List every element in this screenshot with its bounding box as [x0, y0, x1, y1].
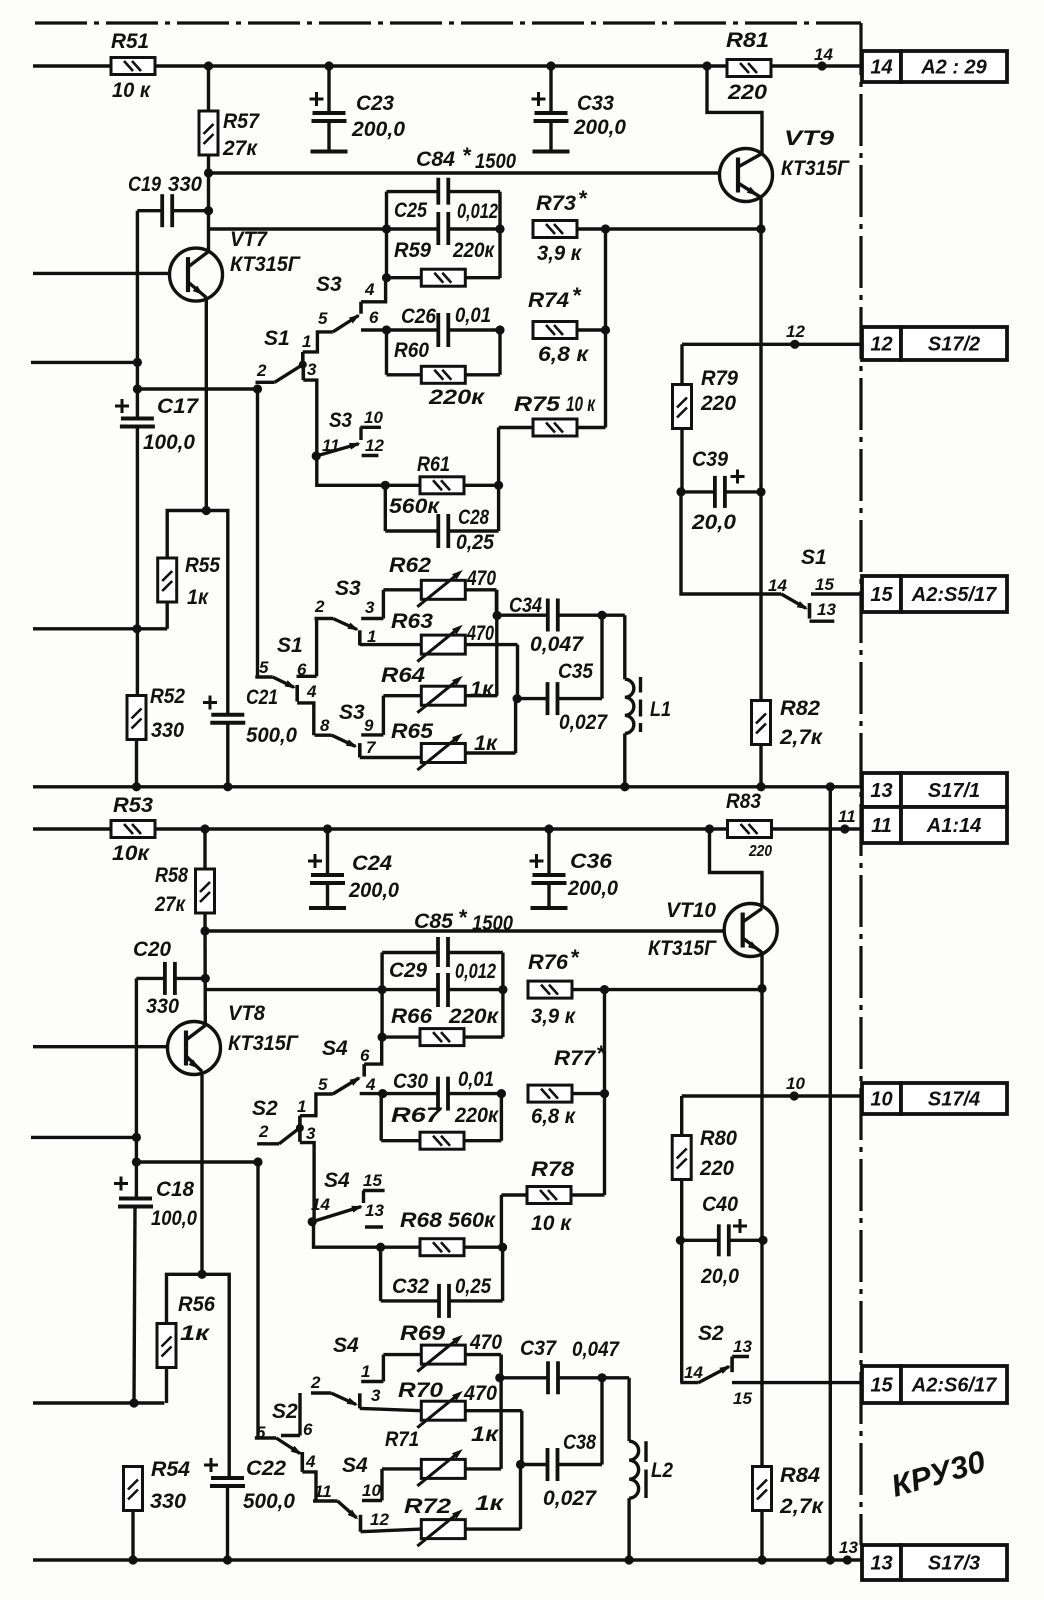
svg-text:15: 15 [870, 584, 893, 606]
svg-text:A2:S6/17: A2:S6/17 [911, 1375, 997, 1397]
capacitor C28 [438, 514, 448, 548]
svg-text:R72: R72 [404, 1495, 451, 1518]
svg-text:КТ315Г: КТ315Г [230, 253, 301, 276]
wire C37 line [500, 1376, 548, 1379]
node R81 left [702, 61, 711, 70]
svg-text:560к: 560к [389, 495, 440, 518]
wire 10 output line [682, 1094, 862, 1097]
node S1 contact [299, 361, 307, 369]
wire R75 left column [497, 428, 500, 486]
wire S3 pin3 tick [361, 617, 383, 620]
svg-text:470: 470 [466, 567, 496, 590]
svg-text:10: 10 [870, 1089, 892, 1111]
svg-text:27к: 27к [154, 893, 186, 916]
resistor R84 [753, 1467, 772, 1511]
capacitor C18 [118, 1199, 153, 1207]
svg-text:7: 7 [366, 738, 377, 757]
wire C38 line [521, 1463, 548, 1466]
wire S4 pin3 bar [358, 1393, 362, 1408]
svg-text:11: 11 [871, 815, 892, 837]
transistor VT10 KT315G [724, 904, 777, 957]
resistor R69 variable 470 [383, 1353, 421, 1356]
wire top rail right segment to connector 14 [771, 64, 862, 67]
node R82 ground [756, 782, 765, 791]
svg-text:S2: S2 [698, 1322, 724, 1345]
svg-text:100,0: 100,0 [151, 1207, 197, 1230]
node C37 left [495, 1373, 504, 1382]
svg-text:VT10: VT10 [666, 899, 716, 922]
wire C25 box right vertical [498, 192, 501, 278]
svg-text:220: 220 [727, 81, 767, 104]
connector box 13 S17/3 [862, 1545, 1007, 1580]
svg-text:15: 15 [870, 1375, 893, 1397]
svg-text:C25: C25 [394, 199, 427, 222]
node C19 right [204, 206, 213, 215]
wire VT9 collector to R81 node [707, 66, 762, 154]
svg-text:0,01: 0,01 [458, 1068, 494, 1091]
node C30 right [497, 1089, 506, 1098]
transistor VT8 KT315G [168, 1022, 221, 1075]
svg-text:3: 3 [371, 1386, 381, 1405]
svg-text:0,047: 0,047 [530, 633, 584, 656]
wire VT7 collector inside [188, 252, 209, 268]
svg-text:6,8 к: 6,8 к [531, 1105, 576, 1128]
node C38 left [516, 1460, 525, 1469]
resistor R77 [528, 1085, 572, 1102]
svg-text:R58: R58 [155, 864, 188, 887]
wire S1 pin3 lead [303, 380, 317, 456]
node L1 ground [620, 782, 629, 791]
node S1 pin2 feed [253, 384, 262, 393]
node C39 right emitter [756, 487, 765, 496]
wire bottom ground rail [33, 1558, 862, 1561]
wire C28 loop left [384, 485, 387, 531]
wire R54 bottom lead [131, 1511, 134, 1561]
svg-text:R82: R82 [780, 697, 820, 720]
svg-text:5: 5 [259, 658, 269, 677]
wire C30 stub [360, 1092, 383, 1095]
svg-text:L2: L2 [651, 1459, 673, 1482]
capacitor C26 [438, 313, 448, 347]
connector box 10 S17/4 [862, 1083, 1007, 1114]
wire R78 left column [500, 1195, 503, 1247]
svg-text:R59: R59 [394, 239, 431, 262]
inductor L1 core [639, 677, 642, 693]
wire R67 rail [381, 1139, 420, 1142]
frame right dash-dot border line [859, 23, 862, 1545]
resistor R79 [673, 385, 692, 429]
svg-text:3,9 к: 3,9 к [537, 242, 582, 265]
svg-text:14: 14 [870, 57, 892, 79]
svg-text:C32: C32 [392, 1275, 429, 1298]
svg-text:*: * [570, 945, 580, 970]
svg-text:2: 2 [310, 1373, 321, 1392]
wire S2 pin4 bar [300, 1452, 304, 1472]
wire S3 pin6 bar [359, 302, 363, 314]
node R59 left [382, 273, 391, 282]
node R57 bottom [204, 168, 213, 177]
wire pin14 column to R68 [314, 1222, 381, 1247]
wire C39-S1 column [681, 492, 781, 594]
wire S4 arm 2-3 [331, 1393, 356, 1405]
wire S3 arm 5-6 [333, 316, 359, 332]
svg-text:4: 4 [365, 1075, 376, 1094]
svg-text:1: 1 [361, 1362, 370, 1381]
wire S2 arm 2-1 [279, 1129, 298, 1144]
svg-text:220к: 220к [454, 1104, 499, 1127]
wire VT7 base lead [33, 272, 170, 275]
node C24 top [323, 824, 332, 833]
wire R56 top lead [167, 1274, 230, 1478]
svg-text:1к: 1к [471, 1423, 500, 1446]
wire C18 column vertical [135, 978, 138, 1197]
svg-text:R61: R61 [417, 453, 450, 476]
wire R57 top lead [207, 66, 210, 112]
wire R76 right [572, 988, 762, 991]
wire R65 right up [514, 699, 517, 753]
wire S4 pin12 bar [359, 1515, 363, 1532]
svg-text:R73: R73 [536, 192, 576, 215]
svg-text:2: 2 [314, 597, 325, 616]
node pin 10 [790, 1091, 799, 1100]
node R77 right [600, 1089, 609, 1098]
wire C32 line [381, 1299, 439, 1302]
wire left stub y362 [31, 361, 137, 364]
svg-text:S3: S3 [316, 273, 342, 296]
wire VT9 emitter vertical [759, 198, 762, 701]
wire S2 pin2 tick [257, 1142, 279, 1145]
svg-text:C24: C24 [352, 852, 392, 875]
resistor R67 [420, 1132, 464, 1149]
svg-text:4: 4 [306, 682, 317, 701]
svg-text:500,0: 500,0 [246, 724, 297, 747]
wire VT8 base lead [33, 1045, 168, 1048]
node stub R54 junction [129, 1398, 138, 1407]
wire S4 pin2 tick [311, 1391, 331, 1394]
capacitor C38 [548, 1448, 558, 1481]
svg-text:13: 13 [365, 1201, 384, 1220]
wire VT7 emitter [188, 282, 206, 298]
wire S3 pin10 tick [360, 426, 381, 429]
svg-text:C26: C26 [401, 305, 436, 328]
wire R61 rail [385, 484, 420, 487]
svg-text:C85: C85 [414, 910, 453, 933]
wire R57 bottom lead [207, 154, 210, 252]
node C23 top [324, 61, 333, 70]
svg-text:*: * [578, 186, 588, 211]
wire R74 right [577, 328, 606, 331]
wire S4 pin15 drop [362, 1191, 365, 1204]
resistor R56 [157, 1324, 176, 1368]
wire S1 pin15 lead [811, 592, 862, 595]
svg-text:4: 4 [305, 1452, 316, 1471]
node C26 right [495, 325, 504, 334]
wire S2 pin3 bar [298, 1130, 302, 1142]
wire L2 bottom [627, 1498, 630, 1560]
svg-text:220к: 220к [448, 1005, 500, 1028]
wire C39 line [681, 490, 715, 493]
resistor R66 [420, 1029, 464, 1046]
wire VT9 collector inside [738, 154, 762, 168]
wire R72 right up [519, 1465, 522, 1530]
capacitor C22 [210, 1478, 245, 1486]
node stub R52 junction [132, 624, 141, 633]
wire S3 pin7 bar [358, 743, 362, 757]
resistor R51 [111, 58, 155, 75]
switch S1 lower pin4 to S3 pin8 [297, 703, 314, 735]
wire pin11 column to R61 [317, 456, 386, 485]
svg-text:10 к: 10 к [566, 393, 596, 416]
node L2 ground [625, 1555, 634, 1564]
svg-text:R79: R79 [701, 367, 738, 390]
wire lower supply rail y829 [33, 827, 727, 830]
node ground bus [826, 782, 835, 791]
svg-text:C35: C35 [558, 660, 593, 683]
svg-text:10: 10 [786, 1074, 805, 1093]
resistor R75 [533, 419, 577, 436]
svg-text:S4: S4 [324, 1169, 350, 1192]
svg-text:6: 6 [360, 1046, 370, 1065]
svg-text:R55: R55 [185, 554, 220, 577]
node R68 left [376, 1243, 385, 1252]
wire S2 pin13 bar [730, 1357, 734, 1373]
node R74 right [601, 325, 610, 334]
wire C34 line [497, 614, 548, 617]
wire R82 bottom lead [759, 745, 762, 787]
wire S2 arm 5-4 [276, 1438, 300, 1454]
node C26 left [382, 325, 391, 334]
svg-text:15: 15 [733, 1389, 752, 1408]
wire C35 right up [600, 615, 603, 698]
svg-text:C19: C19 [128, 173, 161, 196]
wire R60 loop left [385, 330, 388, 375]
wire left stub y629 [33, 627, 167, 630]
svg-text:4: 4 [364, 280, 375, 299]
svg-text:C30: C30 [393, 1070, 428, 1093]
svg-text:20,0: 20,0 [691, 511, 736, 534]
wire S3 pin9 to R64 [382, 696, 385, 735]
resistor R53 [111, 821, 155, 838]
node pin 11 [840, 824, 849, 833]
svg-text:R51: R51 [111, 30, 149, 53]
wire R63 right down [516, 645, 519, 699]
svg-text:C17: C17 [157, 395, 199, 418]
svg-text:R65: R65 [391, 720, 433, 743]
node VT8 emitter R56 [197, 1270, 206, 1279]
wire R55 top lead [167, 511, 228, 715]
resistor R57 [199, 111, 218, 155]
wire S2 feed line y1162 [136, 1160, 258, 1163]
resistor R80 [672, 1136, 691, 1180]
capacitor C20 [136, 977, 165, 980]
transistor VT9 KT315G [720, 149, 773, 202]
svg-text:14: 14 [768, 576, 787, 595]
resistor R61 [420, 477, 464, 494]
wire S1 feed line y389 [137, 387, 257, 390]
wire S3 arm 2-1 [333, 619, 357, 630]
svg-text:14: 14 [311, 1195, 330, 1214]
node R66 left [378, 1033, 387, 1042]
wire C26 stub [361, 328, 387, 331]
svg-text:13: 13 [839, 1538, 858, 1557]
node R58 bottom [200, 926, 209, 935]
svg-text:0,012: 0,012 [455, 960, 496, 983]
capacitor C29 [438, 973, 448, 1007]
resistor R60 [421, 366, 465, 383]
svg-text:6: 6 [369, 308, 379, 327]
svg-text:VT7: VT7 [230, 228, 268, 251]
svg-text:VT9: VT9 [784, 127, 834, 150]
svg-text:C33: C33 [577, 92, 614, 115]
svg-text:10 к: 10 к [531, 1212, 572, 1235]
node C35 left [513, 694, 522, 703]
svg-text:500,0: 500,0 [243, 1490, 295, 1513]
wire S4 pin4 bar [362, 1064, 366, 1077]
svg-text:S1: S1 [264, 327, 290, 350]
svg-text:C36: C36 [570, 850, 612, 873]
wire C85 feedback line y931 [205, 929, 724, 932]
svg-text:200,0: 200,0 [348, 879, 399, 902]
wire S2 pin1 bar [298, 1116, 302, 1128]
svg-text:11: 11 [314, 1482, 332, 1501]
svg-text:2,7к: 2,7к [779, 1495, 825, 1518]
svg-text:C29: C29 [389, 959, 427, 982]
svg-text:R56: R56 [178, 1293, 215, 1316]
resistor R64 variable 1k [383, 694, 421, 697]
svg-text:R69: R69 [400, 1322, 445, 1345]
resistor R70 variable 470 [360, 1408, 422, 1410]
wire C17 column vertical [136, 211, 139, 418]
resistor R55 [158, 558, 177, 602]
wire inter-board bus vertical [829, 787, 832, 1560]
wire S1 pin1 to S3 pin5 steps [303, 332, 333, 352]
wire S1 pin2 tick [256, 381, 275, 384]
svg-text:2,7к: 2,7к [779, 726, 823, 749]
wire S1 arm 2-1 [275, 366, 301, 383]
svg-text:C84: C84 [416, 148, 455, 171]
resistor R58 [196, 869, 215, 913]
wire R75 rail [499, 426, 533, 429]
capacitor C30 [438, 1077, 448, 1111]
wire C28 loop right [497, 485, 500, 531]
wire S4 pin1 tick [361, 1380, 383, 1383]
wire VT8 emitter vertical [200, 1072, 203, 1275]
wire S1 arm 5-4 [273, 677, 294, 687]
svg-text:15: 15 [363, 1171, 382, 1190]
wire S2 pin2 column [256, 1162, 259, 1438]
svg-text:S17/4: S17/4 [928, 1089, 980, 1111]
svg-text:1к: 1к [180, 1322, 211, 1345]
node R84 ground [757, 1555, 766, 1564]
svg-text:14: 14 [684, 1363, 703, 1382]
wire R69-C37 column [499, 1355, 502, 1469]
svg-text:C39: C39 [692, 448, 728, 471]
svg-text:11: 11 [838, 807, 856, 826]
svg-text:R57: R57 [223, 110, 260, 133]
svg-text:S4: S4 [322, 1037, 348, 1060]
svg-text:5: 5 [318, 309, 328, 328]
wire R67 loop left [380, 1094, 383, 1141]
svg-text:1500: 1500 [475, 150, 516, 173]
node C22 ground [223, 1555, 232, 1564]
svg-text:R76: R76 [528, 951, 568, 974]
wire R58 bottom lead [203, 913, 207, 1025]
svg-text:A1:14: A1:14 [926, 815, 981, 837]
svg-text:S2: S2 [252, 1097, 278, 1120]
capacitor C33 [549, 66, 552, 113]
wire C32 loop right [501, 1247, 504, 1301]
wire C32 loop left [379, 1247, 382, 1301]
svg-text:5: 5 [318, 1075, 328, 1094]
wire C25 box left vertical [385, 192, 388, 278]
svg-text:R53: R53 [113, 794, 153, 817]
svg-text:470: 470 [466, 622, 494, 645]
node collector-net left [382, 224, 391, 233]
wire S1 pin13 tick [810, 620, 835, 623]
svg-text:КТ315Г: КТ315Г [648, 937, 717, 960]
wire S2 pin6 tick [281, 1434, 300, 1437]
svg-text:3: 3 [306, 1124, 316, 1143]
resistor R74 [533, 322, 577, 339]
resistor R62 variable 470 [383, 588, 421, 591]
svg-text:6: 6 [303, 1420, 313, 1439]
svg-text:*: * [572, 283, 582, 308]
svg-text:0,01: 0,01 [455, 304, 491, 327]
wire S2 arm 14-13 [699, 1367, 730, 1383]
svg-text:10к: 10к [112, 842, 150, 865]
wire S1 pin1 bar [301, 352, 305, 365]
svg-text:13: 13 [817, 600, 836, 619]
wire VT10 collector inside [743, 909, 762, 923]
svg-text:200,0: 200,0 [351, 118, 405, 141]
wire left stub y1137 [31, 1136, 136, 1139]
wire node column x605 [604, 229, 607, 428]
svg-text:*: * [462, 143, 472, 168]
wire R55 bottom lead [165, 602, 168, 629]
svg-text:470: 470 [463, 1382, 497, 1405]
svg-text:1к: 1к [470, 678, 494, 701]
node R52 ground [132, 782, 141, 791]
svg-text:13: 13 [870, 780, 892, 802]
svg-text:R66: R66 [391, 1005, 432, 1028]
wire R79 bottom lead [680, 429, 683, 492]
wire S4 arm 11-12 [338, 1501, 357, 1518]
node stub-C17 junction [133, 358, 142, 367]
wire S2 pin5 tick [255, 1436, 276, 1439]
svg-text:S2: S2 [272, 1400, 298, 1423]
resistor R72 variable 1k [361, 1529, 422, 1532]
node VT7 emitter R55 [202, 506, 211, 515]
node C34 right [597, 611, 606, 620]
svg-text:КТ315Г: КТ315Г [228, 1032, 299, 1055]
resistor R71 variable 1k [382, 1467, 421, 1470]
wire VT8 emitter [186, 1056, 202, 1072]
node C36 top [544, 824, 553, 833]
svg-text:220к: 220к [428, 386, 486, 409]
node C40 left [676, 1236, 685, 1245]
svg-text:C21: C21 [246, 686, 278, 709]
wire R62 right down [495, 590, 498, 616]
resistor R81 [727, 60, 771, 77]
svg-text:330: 330 [146, 995, 179, 1018]
wire C38 right up [600, 1378, 603, 1465]
svg-text:14: 14 [814, 45, 833, 64]
connector box 13 S17/1 [862, 773, 1007, 807]
node R61 left [381, 481, 390, 490]
node C34 left [493, 611, 502, 620]
svg-text:200,0: 200,0 [567, 877, 618, 900]
capacitor C40 [719, 1224, 729, 1256]
